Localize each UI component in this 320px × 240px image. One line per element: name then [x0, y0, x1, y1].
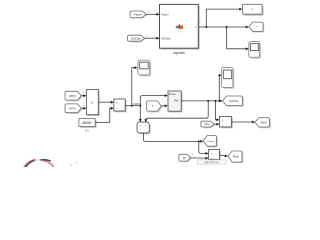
- MATLAB logo: [175, 23, 183, 33]
- wire Add output to Goto Pactual: [143, 133, 203, 143]
- From tag K: [179, 154, 192, 162]
- node feedback: [207, 100, 209, 102]
- watermark logo red swoosh left: [24, 160, 35, 167]
- Goto tag Pactual: [203, 135, 218, 147]
- svg-text:Pactual: Pactual: [207, 140, 215, 143]
- node to scope2: [218, 100, 220, 102]
- MATLAB Function block mymain: [160, 4, 200, 55]
- wire multiply2 to Goto Pbat: [219, 155, 228, 158]
- svg-text:mymain: mymain: [173, 51, 185, 55]
- Scope 2: [222, 67, 235, 88]
- annotation under multiply2: [197, 160, 226, 164]
- Scope 1: [138, 60, 151, 76]
- wire up to P block input 1: [140, 94, 168, 106]
- svg-text:Y: Y: [256, 25, 258, 29]
- svg-text:[K]: [K]: [183, 157, 186, 160]
- svg-text:x: x: [91, 100, 93, 105]
- watermark logo faint connector: [35, 159, 41, 161]
- To Workspace block T: [242, 4, 263, 15]
- svg-text:[Ws]: [Ws]: [204, 123, 209, 126]
- svg-text:Pachref: Pachref: [229, 99, 238, 103]
- wire K to multiply2 input2: [191, 157, 209, 160]
- watermark faint blue dot: [70, 164, 73, 167]
- svg-text:[VPV]: [VPV]: [69, 94, 76, 98]
- svg-text:Pacref: Pacref: [134, 12, 142, 16]
- node to multiply2: [198, 140, 200, 142]
- wire down to subtract input1: [215, 101, 219, 121]
- watermark faint yellow dot: [75, 161, 78, 164]
- svg-text:Pacref: Pacref: [161, 13, 169, 16]
- wire VPV to product: [81, 94, 86, 97]
- Product block: [86, 90, 99, 117]
- wire up to scope2: [219, 74, 222, 101]
- Add block: [137, 122, 151, 134]
- wire subtract to Goto Pbref: [232, 121, 256, 124]
- wire IPV to product: [81, 107, 86, 110]
- wire down to top-right scope: [227, 27, 249, 50]
- watermark logo navy swoosh right: [41, 160, 50, 161]
- node to subtract: [214, 100, 216, 102]
- Subtract block: [220, 117, 233, 129]
- wire constant to divide: [95, 107, 114, 123]
- svg-text:80000: 80000: [83, 121, 92, 125]
- From tag IPV: [65, 104, 83, 114]
- From tag VPV: [65, 91, 83, 101]
- wire P block output: [181, 100, 222, 103]
- wire feedback to Add: [144, 101, 208, 122]
- svg-text:Pbatt: Pbatt: [233, 155, 239, 159]
- watermark logo navy swoosh left: [26, 160, 35, 167]
- From tag Ws: [201, 121, 216, 128]
- node to scope1: [131, 105, 133, 107]
- Scope (top right): [249, 42, 261, 59]
- From tag Pacref: [130, 11, 147, 19]
- svg-text:a([0,1],t)*u-a: a([0,1],t)*u-a: [204, 160, 219, 164]
- wire mymain output: [198, 22, 249, 29]
- svg-text:Pmea: Pmea: [169, 93, 176, 96]
- Subsystem P block: [168, 91, 183, 113]
- wire Pacref to mymain: [146, 13, 160, 16]
- svg-text:D1: D1: [85, 129, 89, 133]
- Goto tag Pbref: [255, 118, 271, 129]
- wire up to T block: [206, 8, 242, 27]
- wire SOCbat to mymain: [145, 37, 160, 40]
- wire product to divide: [98, 98, 114, 103]
- svg-text:SOCbat: SOCbat: [161, 37, 170, 40]
- svg-text:SOCbat: SOCbat: [131, 36, 141, 40]
- Divide block: [114, 99, 127, 112]
- svg-text:fcn: fcn: [178, 32, 181, 34]
- junction node to T block: [205, 26, 207, 28]
- Multiply block 2: [209, 149, 221, 160]
- Goto tag Y (top right): [249, 22, 264, 32]
- svg-text:T: T: [251, 8, 253, 12]
- wire down to multiply2 input1: [199, 141, 209, 154]
- wire tag1 to P block input 2: [161, 104, 168, 107]
- wire down to Add block: [139, 106, 142, 122]
- wire up to scope1: [132, 66, 138, 105]
- watermark logo red swoosh right: [44, 161, 54, 167]
- node branch up/down: [139, 105, 141, 107]
- svg-text:Pbref: Pbref: [260, 120, 266, 124]
- From tag SOCbat: [128, 35, 146, 42]
- wire divide output: [125, 105, 140, 107]
- From tag 1 (mid): [147, 101, 163, 113]
- Goto tag Pbat: [228, 151, 243, 163]
- wire Ws to subtract input2: [214, 123, 219, 126]
- Constant 80000: [79, 119, 97, 133]
- svg-text:Pful: Pful: [174, 100, 179, 103]
- svg-text:[IPV]: [IPV]: [69, 106, 75, 110]
- junction node to scope: [226, 26, 228, 28]
- Goto tag Pachref: [223, 96, 244, 107]
